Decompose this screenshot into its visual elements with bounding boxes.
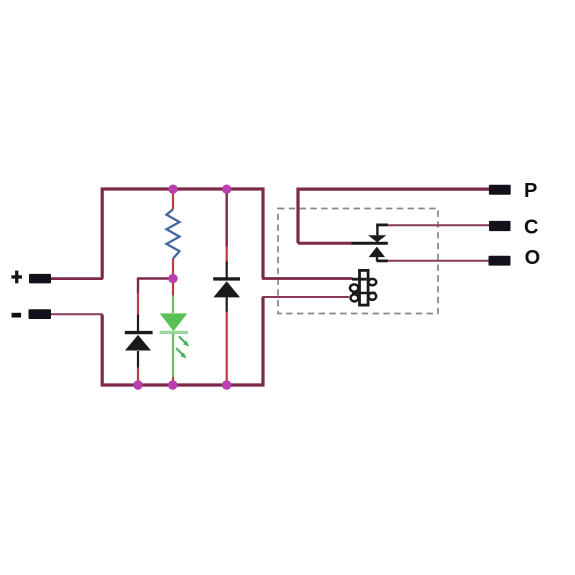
- svg-text:C: C: [524, 216, 538, 238]
- svg-text:O: O: [525, 247, 541, 269]
- svg-text:P: P: [524, 180, 537, 202]
